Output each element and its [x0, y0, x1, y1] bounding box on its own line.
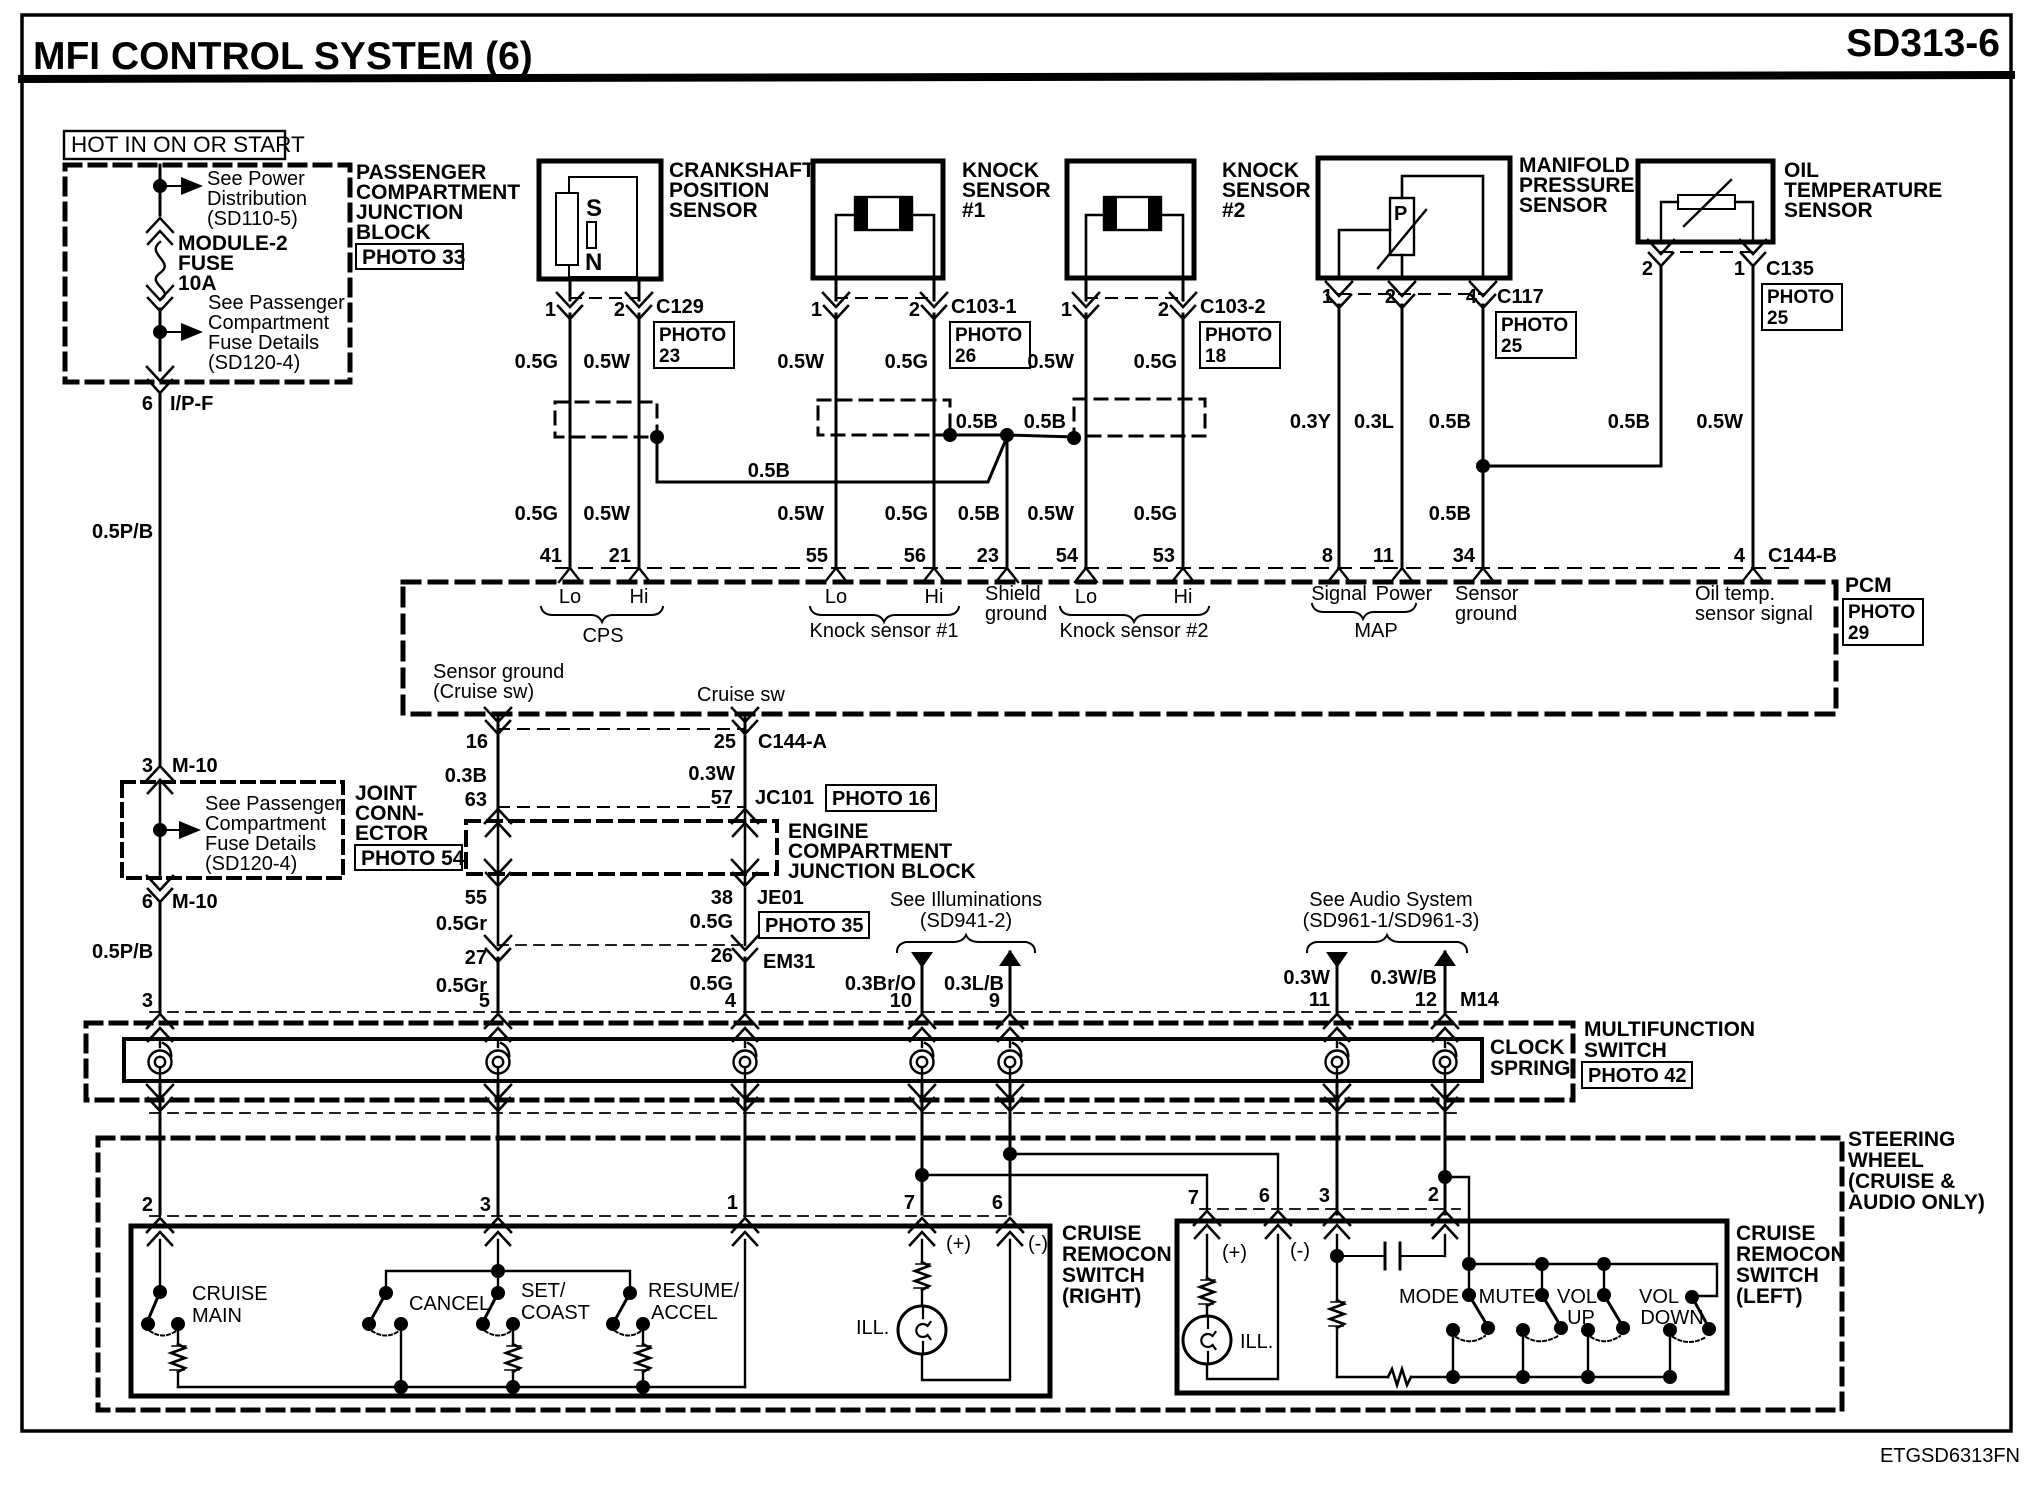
wire 2 down to cruise remocon right pin 2	[159, 1138, 162, 1214]
EM31 connector right	[732, 936, 758, 962]
label SET/COAST	[521, 1280, 590, 1324]
switch VOL DOWN	[1663, 1290, 1716, 1377]
knock1 shield dashed box	[818, 400, 950, 435]
lamp ILL (right switch)	[898, 1306, 946, 1354]
svg-text:27: 27	[465, 947, 487, 969]
M14 entry chevrons wire 4	[909, 1014, 935, 1041]
svg-text:53: 53	[1153, 545, 1175, 567]
svg-text:0.5W: 0.5W	[583, 351, 630, 373]
svg-text:SWITCH: SWITCH	[1062, 1264, 1145, 1287]
resistor on illumination feed	[914, 1240, 930, 1306]
svg-text:ETGSD6313FN: ETGSD6313FN	[1880, 1445, 2020, 1467]
PCM pin 34 entry chevron	[1472, 568, 1494, 582]
svg-text:CLOCK: CLOCK	[1490, 1036, 1565, 1059]
fuse MODULE-2 FUSE 10A symbol	[147, 218, 173, 311]
oil temp thermistor element	[1661, 180, 1753, 240]
svg-text:6: 6	[142, 891, 153, 913]
svg-text:C135: C135	[1766, 258, 1814, 280]
svg-text:54: 54	[1056, 545, 1079, 567]
JE01 exit chevrons right	[732, 860, 758, 886]
wire 0.3Br/O	[921, 966, 924, 1012]
svg-text:11: 11	[1309, 989, 1330, 1011]
svg-text:0.3B: 0.3B	[445, 765, 487, 787]
svg-text:Hi: Hi	[630, 586, 649, 608]
wire through junction block (right)	[744, 807, 747, 945]
svg-text:0.5B: 0.5B	[748, 460, 790, 482]
EM31 mating dashed line	[498, 944, 745, 946]
svg-text:5: 5	[479, 990, 490, 1012]
wire 11 down to left remocon pin 3	[1336, 1138, 1339, 1214]
svg-text:0.3W: 0.3W	[688, 763, 735, 785]
PHOTO 16 box	[826, 785, 936, 811]
PHOTO 33 box	[356, 244, 465, 269]
svg-text:4: 4	[725, 990, 737, 1012]
svg-text:sensor signal: sensor signal	[1695, 603, 1813, 625]
PCM internal name Sensor ground	[1455, 583, 1519, 625]
svg-text:Cruise sw: Cruise sw	[697, 684, 785, 706]
wire shield ground 0.5B to PCM pin 23	[1006, 435, 1009, 568]
note See Audio System (SD961-1/SD961-3)	[1303, 889, 1480, 932]
svg-text:18: 18	[1205, 346, 1226, 367]
wire 6 down to pin 6 with branch node	[1009, 1138, 1012, 1214]
svg-text:Power: Power	[1376, 583, 1433, 605]
svg-text:55: 55	[465, 887, 487, 909]
wire 0.3B down to JC101	[497, 730, 500, 807]
svg-text:(CRUISE &: (CRUISE &	[1848, 1170, 1955, 1193]
svg-text:See Audio System: See Audio System	[1309, 889, 1472, 911]
node voldown-bus	[1663, 1370, 1677, 1384]
wire 1 below clock spring	[159, 1081, 162, 1138]
svg-text:10: 10	[890, 990, 912, 1012]
PHOTO 25 box (C117)	[1496, 312, 1576, 358]
wire shield bus to knock2	[1007, 435, 1074, 437]
svg-text:9: 9	[989, 990, 1000, 1012]
note See Power Distribution (SD110-5)	[207, 168, 307, 230]
node mute-bus	[1516, 1370, 1530, 1384]
knock sensor 1 pin 1 connector	[823, 279, 849, 319]
svg-text:Distribution: Distribution	[207, 188, 307, 210]
C144-A mating dashed line	[498, 728, 745, 730]
svg-text:57: 57	[711, 787, 733, 809]
svg-text:0.5Gr: 0.5Gr	[436, 913, 487, 935]
clock spring exit chevrons wire 6	[1324, 1085, 1350, 1111]
svg-text:1: 1	[1322, 286, 1333, 308]
svg-text:Hi: Hi	[925, 586, 944, 608]
multifunction switch dashed box	[86, 1023, 1573, 1100]
svg-text:C144-B: C144-B	[1768, 545, 1837, 567]
dashed box See Passenger Compartment Fuse Details	[122, 782, 343, 878]
cruise remocon switch (right) box	[131, 1226, 1050, 1396]
crankshaft position sensor box	[539, 161, 661, 279]
switch MUTE	[1516, 1257, 1568, 1377]
svg-text:ground: ground	[985, 603, 1047, 625]
svg-text:ILL.: ILL.	[1240, 1331, 1273, 1353]
svg-text:CPS: CPS	[582, 625, 623, 647]
clock spring coil 5	[999, 1040, 1022, 1081]
connector C103-2 mating dashed line	[1086, 297, 1183, 299]
PCM pin 11 entry chevron	[1391, 568, 1413, 582]
svg-text:7: 7	[1188, 1187, 1199, 1209]
svg-text:See Passenger: See Passenger	[205, 793, 342, 815]
svg-text:STEERING: STEERING	[1848, 1128, 1955, 1151]
PHOTO 29 box	[1843, 599, 1923, 645]
svg-text:0.5G: 0.5G	[515, 503, 558, 525]
entry chevrons pin 6	[997, 1218, 1023, 1245]
svg-text:Sensor ground: Sensor ground	[433, 661, 564, 683]
branch wire to left remocon pin 7	[922, 1175, 1207, 1209]
svg-text:0.5B: 0.5B	[956, 411, 998, 433]
svg-text:SWITCH: SWITCH	[1584, 1039, 1667, 1062]
label CLOCK SPRING	[1490, 1036, 1571, 1080]
passenger compartment junction block dashed box	[65, 165, 350, 382]
JC101 entry chevrons pin 57	[732, 809, 758, 836]
CPS magnet S / N marks	[585, 195, 602, 276]
knock2 shield dashed box	[1074, 399, 1205, 436]
svg-text:2: 2	[1428, 1184, 1439, 1206]
svg-text:#1: #1	[962, 199, 986, 222]
bottom bus wire	[178, 1386, 745, 1388]
node cancel-bus	[394, 1380, 408, 1394]
switch common top bus	[1469, 1264, 1717, 1296]
node: junction to fuse details	[153, 325, 167, 339]
svg-text:0.5W: 0.5W	[583, 503, 630, 525]
wire arrow to See Power Distribution	[160, 177, 203, 195]
svg-text:MUTE: MUTE	[1479, 1286, 1536, 1308]
entry chevrons pin 3	[485, 1218, 511, 1245]
label JOINT CONNECTOR	[355, 782, 428, 845]
svg-text:MULTIFUNCTION: MULTIFUNCTION	[1584, 1018, 1755, 1041]
svg-text:See Passenger: See Passenger	[208, 292, 345, 314]
svg-text:(Cruise sw): (Cruise sw)	[433, 681, 534, 703]
branch wire to left remocon pin 6	[1010, 1154, 1278, 1209]
capacitor C	[1337, 1235, 1445, 1269]
svg-text:1: 1	[811, 299, 822, 321]
connector C117 mating dashed line	[1339, 293, 1483, 295]
svg-text:0.5W: 0.5W	[777, 503, 824, 525]
svg-text:Fuse Details: Fuse Details	[205, 833, 316, 855]
illumination return up arrow	[999, 950, 1021, 966]
svg-text:0.5B: 0.5B	[1429, 503, 1471, 525]
svg-text:C117: C117	[1497, 286, 1544, 308]
node sensor ground joins oil temp 0.5B	[1476, 459, 1490, 473]
svg-text:Knock sensor #2: Knock sensor #2	[1060, 620, 1209, 642]
PHOTO 25 box (C135)	[1762, 284, 1842, 330]
svg-text:PHOTO 35: PHOTO 35	[765, 915, 864, 937]
MAP pin 1 connector	[1326, 282, 1352, 308]
clock spring exit chevrons wire 7	[1432, 1085, 1458, 1111]
note See Passenger Compartment Fuse Details (SD120-4)	[205, 793, 342, 875]
wire 0.5P/B down to M-10	[159, 393, 162, 765]
svg-text:MFI CONTROL SYSTEM (6): MFI CONTROL SYSTEM (6)	[33, 35, 533, 78]
svg-text:PHOTO 42: PHOTO 42	[1588, 1065, 1687, 1087]
label MULTIFUNCTION SWITCH	[1584, 1018, 1755, 1062]
node illumination - branch	[1003, 1147, 1017, 1161]
resistor below resume/accel	[635, 1324, 651, 1387]
entry chevrons pin 1	[732, 1218, 758, 1245]
clock spring coil 2	[487, 1040, 510, 1081]
label CRUISE MAIN	[192, 1283, 268, 1327]
svg-text:12: 12	[1415, 989, 1437, 1011]
node volup-bus	[1581, 1370, 1595, 1384]
connector C129 mating dashed line	[570, 297, 639, 299]
node knock2 shield drain	[1067, 431, 1081, 445]
label CRUISE REMOCON SWITCH (LEFT)	[1736, 1222, 1846, 1308]
svg-text:4: 4	[1466, 286, 1478, 308]
clock spring exit chevrons wire 1	[147, 1085, 173, 1111]
wire oil temp pin2 0.5B to sensor ground node	[1483, 266, 1661, 466]
clock spring exit chevrons wire 5	[997, 1085, 1023, 1111]
svg-text:N: N	[585, 249, 602, 276]
svg-text:Oil temp.: Oil temp.	[1695, 583, 1775, 605]
svg-text:3: 3	[142, 990, 153, 1012]
M14 entry chevrons wire 3	[732, 1014, 758, 1041]
cruise remocon right mating dashed line	[150, 1215, 1010, 1217]
node mode feed branch	[1438, 1170, 1452, 1184]
label KNOCK SENSOR #2	[1222, 159, 1311, 222]
wire knock1 Lo 0.5W	[835, 314, 838, 568]
clock spring exit chevrons wire 2	[485, 1085, 511, 1111]
multifunction lower mating dashed line	[150, 1112, 1460, 1114]
svg-text:PHOTO 33: PHOTO 33	[362, 246, 465, 269]
svg-text:(+): (+)	[1222, 1242, 1247, 1264]
svg-text:MAP: MAP	[1354, 620, 1397, 642]
svg-text:I/P-F: I/P-F	[170, 393, 213, 415]
PCM internal name Oil temp. sensor signal	[1695, 583, 1813, 625]
cruise remocon switch (left) box	[1177, 1221, 1727, 1393]
svg-text:BLOCK: BLOCK	[356, 221, 431, 244]
svg-text:0.5G: 0.5G	[515, 351, 558, 373]
svg-text:11: 11	[1373, 545, 1394, 567]
clock spring box	[124, 1039, 1482, 1081]
brace knock2	[1060, 607, 1209, 622]
label VOL DOWN	[1639, 1286, 1704, 1329]
wire 0.3L/B	[1009, 952, 1012, 1012]
svg-text:29: 29	[1848, 623, 1869, 644]
HOT IN ON OR START box	[64, 131, 305, 159]
top bus wire cancel/set/resume	[386, 1271, 630, 1293]
svg-text:25: 25	[1767, 308, 1789, 329]
svg-text:38: 38	[711, 887, 733, 909]
clock spring coil 4	[911, 1040, 934, 1081]
svg-text:55: 55	[806, 545, 828, 567]
JC101 entry chevrons pin 63	[485, 809, 511, 836]
knock sensor #1 box	[813, 161, 943, 278]
PCM box dashed outline	[403, 582, 1836, 714]
PCM pin 56 entry chevron	[923, 568, 945, 582]
knock sensor 1 pin 2 connector	[921, 279, 947, 319]
resistor on illumination feed (left)	[1199, 1235, 1215, 1316]
connector M-10 entering dashed block	[147, 766, 173, 793]
wire through junction block (left)	[497, 807, 500, 945]
EM31 connector left	[485, 936, 511, 962]
PCM pin 55 entry chevron	[825, 568, 847, 582]
wire knock1 Hi 0.5G	[933, 314, 936, 568]
arrow to fuse details note	[160, 821, 201, 839]
svg-text:0.5G: 0.5G	[1134, 503, 1177, 525]
svg-text:COAST: COAST	[521, 1302, 590, 1324]
entry chevrons pin 7	[1194, 1211, 1220, 1238]
wire pin 3 down to node	[1336, 1235, 1338, 1256]
svg-text:23: 23	[659, 346, 680, 367]
svg-text:VOL: VOL	[1557, 1286, 1597, 1308]
node mode-bus	[1446, 1370, 1460, 1384]
wire pin2 into cruise main	[159, 1240, 161, 1292]
PHOTO 35 box	[759, 912, 869, 938]
svg-text:(SD120-4): (SD120-4)	[205, 853, 297, 875]
svg-text:PHOTO 16: PHOTO 16	[832, 788, 931, 810]
svg-text:2: 2	[1385, 286, 1396, 308]
CPS pin 1 connector	[557, 279, 583, 319]
svg-text:2: 2	[142, 1194, 153, 1216]
brace knock1	[810, 607, 959, 622]
wire knock2 Lo 0.5W	[1085, 314, 1088, 568]
bottom bus with resistor	[1337, 1369, 1670, 1385]
connector M-10 leaving dashed block	[147, 876, 173, 902]
clock spring coil 7	[1434, 1040, 1457, 1081]
svg-text:ground: ground	[1455, 603, 1517, 625]
svg-text:3: 3	[1319, 1185, 1330, 1207]
svg-text:Sensor: Sensor	[1455, 583, 1519, 605]
C144-A pin 16 exit chevron	[485, 708, 511, 734]
MAP sensor P element	[1378, 198, 1426, 268]
label CRUISE REMOCON SWITCH (RIGHT)	[1062, 1222, 1172, 1308]
wire 3 down to pin 3	[497, 1138, 500, 1214]
svg-text:See Power: See Power	[207, 168, 305, 190]
wire 2 below clock spring	[497, 1081, 500, 1138]
M14 entry chevrons wire 2	[485, 1014, 511, 1041]
svg-text:PHOTO: PHOTO	[955, 325, 1022, 346]
PHOTO 23 box	[654, 322, 734, 368]
svg-text:21: 21	[609, 545, 631, 567]
audio feed down arrow	[1326, 952, 1348, 968]
svg-text:6: 6	[1259, 1185, 1270, 1207]
svg-text:CRUISE: CRUISE	[1062, 1222, 1141, 1245]
svg-text:(SD941-2): (SD941-2)	[920, 910, 1012, 932]
wire CPS Hi 0.5W	[638, 314, 641, 568]
svg-text:56: 56	[904, 545, 926, 567]
resistor below node on wire 3	[1329, 1256, 1345, 1377]
wire 1 down to pin 1	[744, 1138, 747, 1214]
svg-text:PHOTO: PHOTO	[1205, 325, 1272, 346]
svg-text:Signal: Signal	[1311, 583, 1367, 605]
svg-text:0.5G: 0.5G	[885, 503, 928, 525]
svg-text:CRUISE: CRUISE	[192, 1283, 268, 1305]
oil temperature sensor box	[1638, 161, 1773, 242]
connector C103-1 mating dashed line	[836, 297, 934, 299]
engine compartment junction block dashed box	[466, 821, 777, 874]
svg-text:(SD120-4): (SD120-4)	[208, 352, 300, 374]
switch RESUME/ACCEL	[606, 1286, 650, 1336]
svg-text:(SD110-5): (SD110-5)	[207, 208, 298, 230]
PHOTO 26 box	[950, 322, 1030, 368]
wire MAP signal 0.3Y	[1338, 305, 1341, 568]
svg-text:SENSOR: SENSOR	[669, 199, 758, 222]
left remocon mating dashed line	[1200, 1208, 1460, 1210]
oil temp pin 2 connector	[1648, 240, 1674, 266]
svg-text:2: 2	[909, 299, 920, 321]
svg-text:PCM: PCM	[1845, 574, 1892, 597]
MAP internal wires to pins	[1339, 176, 1483, 278]
node CPS shield drain	[650, 430, 664, 444]
branch wire to switch common bus	[1445, 1177, 1469, 1264]
M14 entry chevrons wire 6	[1324, 1014, 1350, 1041]
svg-text:6: 6	[992, 1192, 1003, 1214]
lamp ILL (left switch)	[1183, 1316, 1231, 1364]
svg-text:M-10: M-10	[172, 891, 218, 913]
wire 0.5G down to clock spring	[744, 958, 747, 1012]
node set-bus	[506, 1380, 520, 1394]
svg-text:Knock sensor #1: Knock sensor #1	[810, 620, 959, 642]
knock sensor 2 pin 1 connector	[1073, 279, 1099, 319]
svg-text:1: 1	[545, 299, 556, 321]
wire CPS shield 0.5B to knock shield bus	[657, 437, 1007, 482]
label MANIFOLD PRESSURE SENSOR	[1519, 154, 1635, 217]
resistor below cruise main	[170, 1324, 186, 1387]
PCM internal name Sensor ground (Cruise sw)	[433, 661, 564, 703]
node: junction to power distribution	[153, 179, 167, 193]
svg-text:41: 41	[540, 545, 562, 567]
svg-text:0.5W: 0.5W	[1027, 351, 1074, 373]
M14 mating dashed line	[150, 1011, 1460, 1013]
svg-text:8: 8	[1322, 545, 1333, 567]
svg-text:(+): (+)	[946, 1233, 971, 1255]
M14 entry chevrons wire 7	[1432, 1014, 1458, 1041]
svg-text:Fuse Details: Fuse Details	[208, 332, 319, 354]
svg-text:Compartment: Compartment	[205, 813, 327, 835]
svg-text:DOWN: DOWN	[1640, 1307, 1703, 1329]
svg-text:0.5P/B: 0.5P/B	[92, 521, 153, 543]
svg-text:Lo: Lo	[559, 586, 581, 608]
svg-text:(-): (-)	[1028, 1233, 1048, 1255]
wire 0.3W	[1336, 966, 1339, 1012]
svg-text:M14: M14	[1460, 989, 1500, 1011]
clock spring exit chevrons wire 4	[909, 1085, 935, 1111]
svg-text:(LEFT): (LEFT)	[1736, 1285, 1802, 1308]
svg-text:See Illuminations: See Illuminations	[890, 889, 1042, 911]
svg-text:P: P	[1394, 203, 1407, 225]
svg-text:ACCEL: ACCEL	[651, 1302, 718, 1324]
PCM connector mating dashed line	[556, 567, 1790, 569]
MAP pin 2 connector	[1389, 282, 1415, 308]
svg-text:C103-1: C103-1	[951, 296, 1017, 318]
entry chevrons pin 7	[909, 1218, 935, 1245]
manifold pressure sensor box	[1318, 158, 1510, 278]
svg-text:4: 4	[1734, 545, 1746, 567]
svg-text:1: 1	[1061, 299, 1072, 321]
lamp return wire to pin 6	[1207, 1235, 1278, 1379]
CPS shield dashed box	[555, 402, 657, 437]
audio return up arrow	[1434, 950, 1456, 966]
switch SET/COAST	[476, 1286, 520, 1336]
svg-text:(SD961-1/SD961-3): (SD961-1/SD961-3)	[1303, 910, 1480, 932]
svg-text:Lo: Lo	[1075, 586, 1097, 608]
svg-text:0.3W/B: 0.3W/B	[1370, 967, 1437, 989]
entry chevrons pin 2	[1432, 1211, 1458, 1238]
wire 7 down to pin 7 with branch node	[921, 1138, 924, 1214]
label RESUME/ACCEL	[648, 1280, 740, 1324]
svg-text:(RIGHT): (RIGHT)	[1062, 1285, 1141, 1308]
svg-text:0.5W: 0.5W	[1696, 411, 1743, 433]
label PASSENGER COMPARTMENT JUNCTION BLOCK	[356, 161, 520, 244]
illumination feed down arrow	[911, 952, 933, 968]
svg-text:0.5B: 0.5B	[958, 503, 1000, 525]
svg-text:0.5B: 0.5B	[1429, 411, 1471, 433]
wire 4 below clock spring	[921, 1081, 924, 1138]
svg-text:0.5P/B: 0.5P/B	[92, 941, 153, 963]
brace MAP	[1312, 604, 1416, 619]
wire pin 3 to switch bus	[497, 1240, 499, 1271]
svg-text:EM31: EM31	[763, 951, 815, 973]
